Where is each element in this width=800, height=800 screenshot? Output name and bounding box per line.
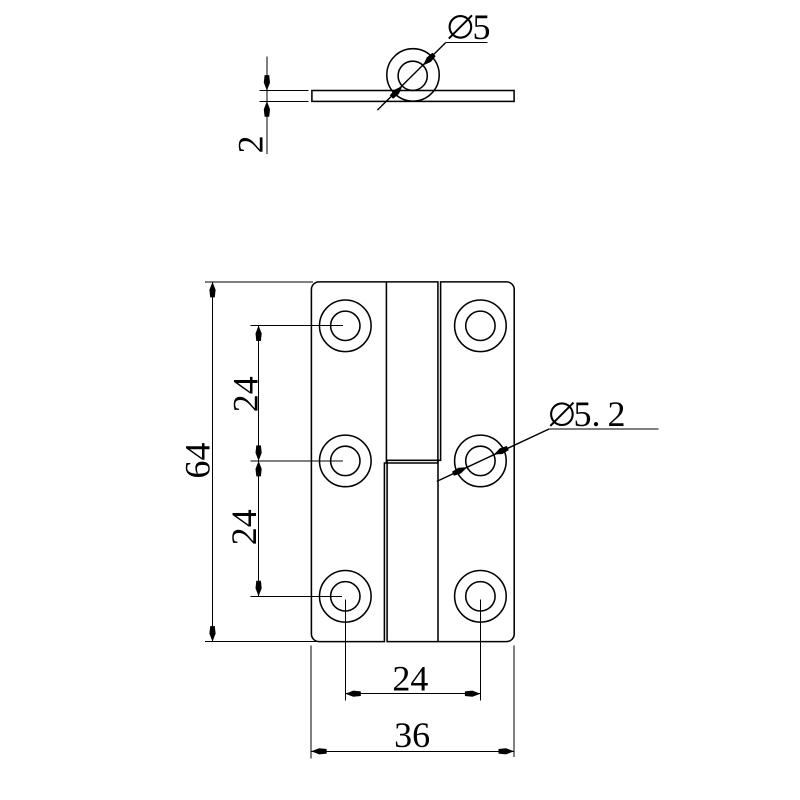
dimension 64: top extension line bbox=[205, 281, 313, 283]
hole middle-right inner Ø5.2 bbox=[466, 446, 495, 475]
knuckle barrel outer circle (top view) bbox=[387, 49, 439, 101]
knuckle pin hole inner circle Ø5 (top view) bbox=[398, 61, 427, 90]
svg-text:5.2: 5.2 bbox=[574, 394, 626, 434]
dimension 36: right extension line bbox=[513, 646, 515, 758]
leader line Ø5 bbox=[377, 43, 445, 111]
svg-text:24: 24 bbox=[392, 659, 428, 699]
hole top-left inner Ø5.2 bbox=[331, 311, 360, 340]
dimension 24 vertical: extension line from middle hole bbox=[250, 460, 343, 462]
label Ø5: diameter symbol slash bbox=[449, 15, 472, 38]
leader Ø5 lower arrow bbox=[390, 86, 403, 99]
dimension 24 horizontal: extension line from bottom-right hole bbox=[479, 600, 481, 701]
dimension 36: left arrow bbox=[311, 748, 327, 754]
dimension 2: extension line top bbox=[260, 90, 309, 92]
label Ø5.2: diameter symbol slash bbox=[550, 403, 573, 426]
svg-text:2: 2 bbox=[230, 135, 270, 153]
dimension 24 horizontal: right arrow bbox=[465, 691, 481, 697]
dimension 24 vertical: extension line from top hole bbox=[250, 325, 343, 327]
svg-text:64: 64 bbox=[178, 443, 218, 479]
dimension 24 lower: bottom arrow bbox=[256, 581, 262, 597]
dimension 64: bottom extension line bbox=[205, 641, 317, 643]
front view: left leaf with upper knuckle bbox=[311, 282, 438, 642]
leader Ø5.2 lower arrow bbox=[452, 467, 467, 476]
hole top-right inner Ø5.2 bbox=[466, 311, 495, 340]
svg-text:36: 36 bbox=[394, 715, 430, 755]
dimension 36: left extension line bbox=[310, 646, 312, 759]
leader Ø5.2 upper arrow bbox=[494, 446, 509, 455]
dimension 64: top arrow bbox=[209, 282, 215, 298]
hole middle-left outer bbox=[320, 435, 372, 487]
dimension 24 upper: top arrow bbox=[256, 326, 262, 342]
hole middle-right outer bbox=[455, 435, 507, 487]
dimension 2: extension line bottom bbox=[260, 100, 309, 102]
dimension 2: lower arrow bbox=[264, 101, 270, 117]
hole bottom-left outer bbox=[320, 571, 372, 623]
dimension 24 upper: bottom arrow bbox=[256, 445, 262, 461]
dimension 2: upper arrow bbox=[264, 75, 270, 91]
dimension 36: dimension line bbox=[311, 750, 514, 752]
dimension 24 horizontal: left arrow bbox=[345, 691, 361, 697]
leader Ø5 landing line bbox=[446, 42, 488, 44]
svg-text:5: 5 bbox=[473, 7, 491, 47]
front view: right leaf with lower knuckle bbox=[387, 282, 514, 642]
dimension 64: dimension line bbox=[212, 282, 214, 642]
hole bottom-right outer bbox=[455, 571, 507, 623]
label Ø5: diameter symbol circle bbox=[450, 16, 472, 38]
dimension 24 vertical: dimension line bbox=[258, 326, 260, 597]
front view: right leaf knuckle tangent edge bbox=[437, 460, 439, 641]
hole middle-left inner Ø5.2 bbox=[331, 446, 360, 475]
dimension 2: dimension line bbox=[266, 56, 268, 154]
dimension 64: bottom arrow bbox=[209, 626, 215, 642]
dimension 24 lower: top arrow bbox=[256, 461, 262, 477]
hole bottom-left inner Ø5.2 bbox=[331, 582, 360, 611]
hole top-right outer bbox=[455, 300, 507, 352]
leader line Ø5.2 bbox=[437, 429, 550, 482]
svg-text:24: 24 bbox=[225, 376, 265, 412]
svg-text:24: 24 bbox=[224, 509, 264, 545]
dimension 24 horizontal: dimension line bbox=[345, 693, 480, 695]
hole top-left outer bbox=[320, 300, 372, 352]
dimension 24 vertical: extension line from bottom hole bbox=[250, 595, 342, 597]
leader Ø5.2 landing line bbox=[549, 428, 658, 430]
front view: left leaf knuckle tangent edge bbox=[385, 282, 387, 463]
label Ø5.2: diameter symbol circle bbox=[551, 403, 573, 425]
leader Ø5 upper arrow bbox=[423, 53, 436, 66]
dimension 24 horizontal: extension line from bottom-left hole bbox=[344, 600, 346, 701]
top view plate (side profile of hinge leaf) bbox=[312, 91, 514, 102]
dimension 36: right arrow bbox=[499, 748, 515, 754]
hole bottom-right inner Ø5.2 bbox=[466, 582, 495, 611]
